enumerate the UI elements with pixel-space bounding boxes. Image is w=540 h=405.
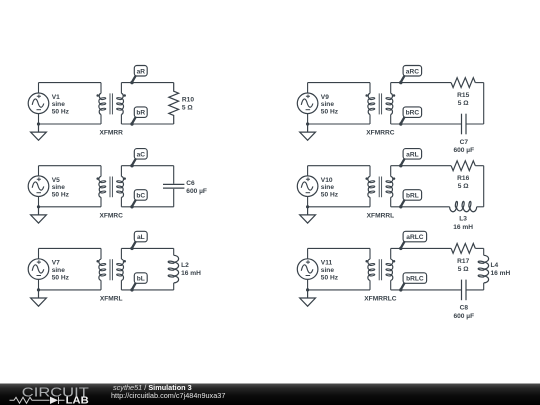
svg-text:http://circuitlab.com/c7j484n9: http://circuitlab.com/c7j484n9uxa37: [111, 391, 225, 400]
node aRLC pointer: [401, 242, 405, 248]
svg-text:50 Hz: 50 Hz: [321, 109, 339, 116]
svg-text:bR: bR: [136, 110, 145, 117]
junction V10 ground node: [306, 205, 309, 208]
wire V9 top stub: [307, 83, 309, 93]
ground below V9: [300, 124, 316, 140]
transformer XFMRRL core: [379, 177, 381, 198]
node bRC junction: [399, 122, 402, 125]
transformer XFMRR phase dots: [96, 94, 99, 97]
ground below V10: [300, 207, 316, 223]
inductor L3: [450, 207, 477, 212]
svg-text:V9: V9: [321, 94, 329, 101]
node bL flag: [134, 273, 147, 284]
transformer XFMRL core: [110, 259, 112, 280]
svg-text:sine: sine: [321, 101, 335, 108]
svg-text:16 mH: 16 mH: [491, 270, 511, 277]
svg-text:50 Hz: 50 Hz: [321, 274, 339, 281]
wire XFMRC secondary top: [121, 165, 173, 167]
wire right edge: [483, 83, 485, 124]
svg-text:XFMRL: XFMRL: [100, 296, 123, 303]
resistor R16: [451, 161, 475, 171]
wire XFMRRLC secondary top: [391, 247, 451, 249]
node bRL junction: [399, 205, 402, 208]
wire XFMRL secondary bottom: [121, 289, 173, 291]
svg-text:V10: V10: [321, 177, 333, 184]
ground below V5: [31, 207, 47, 223]
svg-text:sine: sine: [321, 184, 335, 191]
wire secondary bottom to inductor: [391, 206, 450, 208]
svg-text:bL: bL: [137, 276, 145, 283]
transformer XFMRRLC secondary winding: [390, 248, 392, 259]
voltage source V7: [28, 259, 49, 280]
junction V9 ground node: [306, 122, 309, 125]
transformer XFMRRL secondary winding: [390, 166, 392, 177]
wire load bottom lead: [173, 283, 175, 290]
wire primary bottom XFMRC: [39, 206, 102, 208]
node aC flag: [134, 149, 147, 160]
node aR flag: [134, 66, 147, 77]
svg-text:C6: C6: [186, 180, 195, 187]
svg-text:600 µF: 600 µF: [186, 188, 207, 195]
svg-text:sine: sine: [52, 267, 66, 274]
wire V5 top stub: [38, 166, 40, 176]
transformer XFMRL phase dots: [96, 260, 99, 263]
node bRLC flag: [403, 273, 427, 284]
svg-text:C7: C7: [460, 139, 469, 146]
svg-text:R10: R10: [182, 97, 194, 104]
wire V5 top to XFMRC primary: [39, 165, 102, 167]
ground below V1: [31, 124, 47, 140]
wire V11 top stub: [307, 248, 309, 258]
wire XFMRRC secondary top: [391, 82, 451, 84]
wire V1 top to XFMRR primary: [39, 82, 102, 84]
transformer XFMRRLC core: [379, 259, 381, 280]
node aC pointer: [132, 159, 136, 165]
svg-text:V7: V7: [52, 260, 60, 267]
node aRL junction: [399, 164, 402, 167]
transformer XFMRRC primary winding: [369, 83, 371, 94]
svg-text:XFMRRLC: XFMRRLC: [364, 296, 396, 303]
svg-text:XFMRRC: XFMRRC: [366, 130, 394, 137]
svg-text:50 Hz: 50 Hz: [52, 109, 70, 116]
wire primary bottom XFMRR: [39, 123, 102, 125]
wire V1 top stub: [38, 83, 40, 93]
wire V10 top stub: [307, 166, 309, 176]
node bRLC junction: [399, 288, 402, 291]
transformer XFMRRLC primary winding: [369, 248, 371, 259]
inductor L4: [484, 255, 489, 283]
wire V9 top to XFMRRC primary: [308, 82, 370, 84]
svg-text:L3: L3: [459, 216, 467, 223]
resistor R17: [451, 244, 475, 254]
wire secondary bottom to capacitor: [391, 123, 462, 125]
resistor R10: [169, 83, 179, 124]
capacitor C8: [462, 280, 467, 301]
node bL pointer: [132, 283, 136, 289]
transformer XFMRRLC phase dots: [365, 260, 368, 263]
wire capacitor to right edge: [466, 289, 484, 291]
wire load bottom lead: [173, 189, 175, 207]
capacitor C7: [462, 114, 467, 135]
node aL flag: [134, 231, 147, 242]
transformer XFMRC secondary winding: [120, 166, 122, 177]
wire V7 bottom stub: [38, 279, 40, 290]
node aC junction: [130, 164, 133, 167]
wire XFMRC secondary bottom: [121, 206, 173, 208]
wire V11 top to XFMRRLC primary: [308, 247, 370, 249]
node aRC pointer: [401, 76, 405, 82]
wire primary bottom XFMRRLC: [308, 289, 370, 291]
node bRC pointer: [401, 117, 405, 123]
wire V5 bottom stub: [38, 197, 40, 207]
node bC junction: [130, 205, 133, 208]
node aR junction: [130, 81, 133, 84]
svg-text:LAB: LAB: [66, 396, 89, 405]
node bC flag: [134, 190, 147, 201]
transformer XFMRRC phase dots: [365, 94, 368, 97]
node aRL flag: [403, 149, 422, 160]
junction V5 ground node: [37, 205, 40, 208]
transformer XFMRR core: [110, 93, 112, 114]
svg-text:R17: R17: [457, 258, 469, 265]
svg-text:bRC: bRC: [406, 110, 420, 117]
inductor L2: [174, 255, 179, 283]
node bRC flag: [403, 107, 422, 118]
svg-text:16 mH: 16 mH: [453, 224, 473, 231]
node aRLC flag: [403, 231, 427, 242]
svg-text:5 Ω: 5 Ω: [458, 183, 469, 190]
wire resistor to corner: [475, 165, 483, 167]
wire V1 bottom stub: [38, 114, 40, 124]
svg-text:C8: C8: [460, 305, 469, 312]
svg-text:50 Hz: 50 Hz: [52, 274, 70, 281]
svg-text:50 Hz: 50 Hz: [321, 192, 339, 199]
svg-text:5 Ω: 5 Ω: [458, 266, 469, 273]
junction V7 ground node: [37, 288, 40, 291]
voltage source V11: [297, 259, 318, 280]
svg-text:16 mH: 16 mH: [181, 270, 201, 277]
wire right edge: [483, 166, 485, 207]
transformer XFMRC phase dots: [96, 177, 99, 180]
svg-text:600 µF: 600 µF: [453, 147, 474, 154]
svg-text:V1: V1: [52, 94, 60, 101]
wire V10 bottom stub: [307, 197, 309, 207]
node bR junction: [130, 122, 133, 125]
node bRL flag: [403, 190, 422, 201]
node aRL pointer: [401, 159, 405, 165]
svg-text:bRLC: bRLC: [406, 276, 424, 283]
transformer XFMRL secondary winding: [120, 248, 122, 259]
wire resistor to corner: [475, 82, 483, 84]
transformer XFMRR secondary winding: [120, 83, 122, 94]
svg-text:aR: aR: [137, 68, 146, 75]
node bRLC pointer: [401, 283, 405, 289]
svg-text:V11: V11: [321, 260, 333, 267]
node bR flag: [134, 107, 147, 118]
svg-text:50 Hz: 50 Hz: [52, 192, 70, 199]
transformer XFMRRL primary winding: [369, 166, 371, 177]
svg-text:sine: sine: [321, 267, 335, 274]
svg-text:aL: aL: [137, 234, 145, 241]
svg-text:XFMRRL: XFMRRL: [367, 212, 394, 219]
wire XFMRR secondary top: [121, 82, 173, 84]
wire primary bottom XFMRRL: [308, 206, 370, 208]
svg-text:aC: aC: [137, 151, 146, 158]
capacitor C6: [163, 184, 184, 188]
wire capacitor to right edge: [466, 123, 484, 125]
svg-text:R16: R16: [457, 175, 469, 182]
voltage source V10: [297, 176, 318, 197]
wire primary bottom XFMRRC: [308, 123, 370, 125]
junction V1 ground node: [37, 122, 40, 125]
node bR pointer: [132, 117, 136, 123]
logo schematic doodle: wire resistor diode: [10, 397, 65, 404]
svg-text:600 µF: 600 µF: [453, 313, 474, 320]
svg-text:sine: sine: [52, 101, 66, 108]
svg-text:XFMRR: XFMRR: [99, 130, 123, 137]
wire XFMRL secondary top: [121, 247, 173, 249]
svg-text:sine: sine: [52, 184, 66, 191]
svg-text:5 Ω: 5 Ω: [182, 105, 193, 112]
wire XFMRR secondary bottom: [121, 123, 173, 125]
transformer XFMRRC secondary winding: [390, 83, 392, 94]
node aRLC junction: [399, 247, 402, 250]
svg-text:R15: R15: [457, 92, 469, 99]
wire right edge top lead: [483, 248, 485, 255]
node aL junction: [130, 247, 133, 250]
node aR pointer: [132, 76, 136, 82]
svg-text:aRLC: aRLC: [406, 234, 423, 241]
wire load top lead: [173, 166, 175, 184]
wire V11 bottom stub: [307, 279, 309, 290]
wire V7 top stub: [38, 248, 40, 258]
svg-text:bC: bC: [136, 193, 145, 200]
node bRL pointer: [401, 200, 405, 206]
wire primary bottom XFMRL: [39, 289, 102, 291]
svg-text:L2: L2: [181, 262, 189, 269]
wire V7 top to XFMRL primary: [39, 247, 102, 249]
wire secondary bottom to capacitor: [391, 289, 462, 291]
voltage source V5: [28, 176, 49, 197]
wire V10 top to XFMRRL primary: [308, 165, 370, 167]
svg-text:5 Ω: 5 Ω: [458, 100, 469, 107]
node bL junction: [130, 288, 133, 291]
voltage source V1: [28, 93, 49, 114]
resistor R15: [451, 78, 475, 88]
transformer XFMRRC core: [379, 93, 381, 114]
svg-text:aRC: aRC: [406, 68, 419, 75]
junction V11 ground node: [306, 288, 309, 291]
wire XFMRRL secondary top: [391, 165, 451, 167]
transformer XFMRC core: [110, 177, 112, 198]
svg-text:bRL: bRL: [406, 193, 419, 200]
transformer XFMRL primary winding: [100, 248, 102, 259]
wire right edge bottom lead: [483, 283, 485, 290]
wire load top lead: [173, 248, 175, 255]
wire V9 bottom stub: [307, 114, 309, 124]
ground below V11: [300, 290, 316, 306]
svg-text:V5: V5: [52, 177, 60, 184]
node aL pointer: [132, 242, 136, 248]
node aRC flag: [403, 66, 422, 77]
node aRC junction: [399, 81, 402, 84]
wire resistor to corner: [475, 247, 483, 249]
svg-text:XFMRC: XFMRC: [99, 212, 123, 219]
svg-text:aRL: aRL: [406, 151, 418, 158]
wire inductor to right edge: [477, 206, 484, 208]
svg-text:L4: L4: [491, 262, 499, 269]
voltage source V9: [297, 93, 318, 114]
node bC pointer: [132, 200, 136, 206]
ground below V7: [31, 290, 47, 306]
transformer XFMRRL phase dots: [365, 177, 368, 180]
transformer XFMRC primary winding: [100, 166, 102, 177]
transformer XFMRR primary winding: [100, 83, 102, 94]
